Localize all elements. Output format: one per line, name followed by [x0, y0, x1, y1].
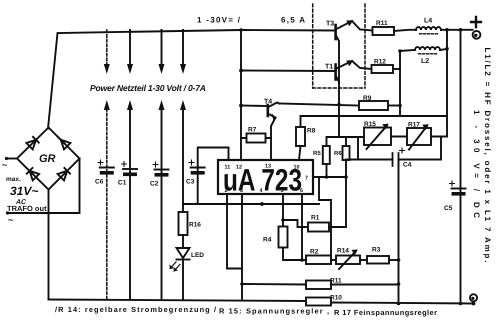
wire: L2 left lead [400, 50, 414, 51]
diode D-BR [58, 168, 70, 180]
terminal: + output [471, 17, 481, 27]
svg-text:R 15: Spannungsregler ,: R 15: Spannungsregler , [219, 307, 329, 316]
potentiometer R14 [336, 256, 360, 265]
wire: rail to T1 base [241, 70, 335, 73]
svg-text:~: ~ [8, 215, 13, 225]
resistor R2 [306, 256, 331, 265]
wire: R11b right lead [331, 284, 399, 286]
resistor R3 [367, 256, 389, 264]
wire: IC right pin stub [313, 176, 346, 178]
wire: pin 6 down [301, 194, 303, 260]
wire: ground line under IC [183, 203, 319, 205]
svg-text:C4: C4 [403, 162, 412, 169]
transistor T3 [334, 25, 337, 39]
svg-text:13: 13 [265, 164, 271, 170]
svg-text:R16: R16 [189, 222, 201, 229]
svg-text:11: 11 [225, 165, 231, 171]
svg-text:R1: R1 [311, 215, 320, 222]
svg-text:/R 14: regelbare Strombegrenzu: /R 14: regelbare Strombegrenzung / [55, 305, 216, 314]
resistor R8 [300, 116, 302, 127]
svg-text:7: 7 [305, 176, 308, 182]
svg-text:R6: R6 [334, 150, 342, 157]
wire: V+ vertical to IC pin 12 [240, 30, 242, 160]
diode D-BL [27, 168, 39, 180]
transistor T1 [334, 65, 337, 80]
wire: R16 feed with arrows [182, 30, 184, 204]
wire: R8 top line [301, 115, 448, 117]
diode D-TR [58, 137, 71, 150]
svg-text:R7: R7 [248, 127, 257, 134]
wire: L2 right lead [440, 49, 447, 50]
terminal: AC upper [5, 157, 8, 160]
resistor R16 [179, 212, 188, 235]
svg-text:LED: LED [191, 252, 204, 259]
wire: R12 to vertical node [393, 68, 400, 70]
svg-text:max.: max. [6, 176, 21, 183]
resistor R4 [279, 227, 288, 248]
svg-text:uA 723: uA 723 [223, 163, 302, 198]
wire: R2 to R14 [331, 259, 336, 261]
wire: C4 branch left drop [357, 137, 359, 160]
wire: output plus rail down (to C5, minus end) [460, 30, 462, 304]
capacitor C4 [346, 159, 393, 161]
wire: C2 feed with arrows [161, 30, 163, 300]
resistor R11 (sense) [306, 281, 331, 290]
svg-text:R3: R3 [372, 247, 381, 254]
wire: R14 to R3 [360, 259, 367, 261]
svg-text:T3: T3 [326, 21, 334, 28]
transistor T4 [266, 105, 269, 116]
wire: stub dogleg down [319, 177, 331, 260]
resistor R5 [326, 137, 328, 146]
capacitor C3 [191, 167, 205, 169]
wire: C4 node down to bus [398, 160, 400, 304]
wire: bridge minus down [48, 190, 50, 300]
diode D-TL [26, 137, 38, 150]
svg-text:C3: C3 [186, 179, 195, 186]
wire: pin 2 down [227, 194, 242, 269]
svg-text:R5: R5 [313, 150, 321, 157]
wire: R16 to LED [182, 235, 184, 248]
terminal: AC lower [6, 211, 9, 214]
svg-text:R12: R12 [374, 59, 386, 66]
svg-text:R 17 Feinspannungsregler: R 17 Feinspannungsregler [334, 308, 437, 317]
wire: pin 3 down to bus [241, 194, 243, 301]
wire: dashed C6 feed with arrows [106, 30, 108, 300]
svg-text:R8: R8 [307, 128, 316, 135]
wire: R12/R9 vertical [399, 51, 401, 116]
LED [177, 248, 190, 258]
svg-text:R17: R17 [408, 122, 420, 129]
svg-text:1 - 30 V= / DC: 1 - 30 V= / DC [472, 110, 481, 218]
node: T4 base junction [239, 104, 243, 108]
svg-text:GR: GR [39, 153, 56, 165]
resistor R7 [241, 137, 271, 139]
wire: top positive rail [48, 30, 335, 129]
resistor R11 (emitter T3) [373, 27, 395, 35]
resistor R6 [345, 137, 347, 146]
svg-text:~: ~ [2, 160, 7, 170]
bridge rectifier GR [17, 128, 80, 190]
terminal: minus output [470, 294, 477, 301]
svg-text:R4: R4 [263, 237, 272, 244]
wire: L1 to + terminal [441, 29, 473, 31]
svg-text:R2: R2 [310, 249, 319, 256]
wire: T4 collector to R9 [279, 104, 359, 106]
capacitor C6 [100, 167, 114, 169]
dashed box around T3/T1 [313, 4, 365, 88]
svg-text:T4: T4 [264, 99, 272, 106]
svg-text:12: 12 [236, 165, 242, 171]
wire: R3 right lead [389, 259, 399, 261]
svg-text:C2: C2 [150, 181, 159, 188]
svg-text:L2: L2 [421, 58, 429, 65]
resistor R10 [306, 298, 331, 306]
svg-text:C1: C1 [118, 180, 127, 187]
wire: R11b row [242, 283, 306, 286]
svg-text:6,5 A: 6,5 A [281, 16, 305, 25]
svg-text:R15: R15 [364, 121, 376, 128]
svg-text:1 -30V= /: 1 -30V= / [197, 16, 241, 25]
svg-text:T1: T1 [325, 64, 333, 71]
wire: bottom bus left [49, 300, 307, 302]
svg-text:Power Netzteil 1-30 Volt / 0-7: Power Netzteil 1-30 Volt / 0-7A [90, 83, 206, 93]
capacitor C5 [452, 188, 466, 190]
wire: R15 to R17 [391, 136, 407, 138]
svg-text:TRAFO out: TRAFO out [7, 204, 47, 213]
resistor R12 (emitter T1) [372, 65, 394, 73]
wire: T4 base [241, 105, 267, 108]
svg-text:R10: R10 [330, 295, 342, 302]
wire: AC input lower [8, 159, 80, 214]
wire: pin 11 to C3 [198, 148, 229, 205]
node: T1 base rail junction [239, 69, 243, 73]
potentiometer R17 [407, 128, 431, 145]
svg-text:31V~: 31V~ [10, 184, 38, 198]
wire: to R2 [302, 259, 306, 261]
wire: L-junction vertical to R17 [431, 30, 447, 137]
wire: AC input upper [7, 158, 17, 160]
wire: LED to bus [182, 260, 184, 300]
capacitor C2 [155, 169, 169, 171]
wire: R16 top lead [182, 204, 184, 212]
node A: rail/V+ drop junction [239, 28, 242, 31]
svg-text:C6: C6 [95, 179, 104, 186]
wire: pin 5 to R1/R4 [282, 194, 284, 227]
wire: R11 to L1 [394, 30, 416, 31]
resistor R1 [308, 223, 329, 232]
svg-text:L4: L4 [424, 18, 432, 25]
svg-text:10: 10 [294, 165, 300, 171]
svg-text:R11: R11 [376, 20, 388, 27]
svg-text:C5: C5 [444, 205, 453, 212]
capacitor C1 [123, 168, 137, 170]
wire: C1 feed with arrows [129, 30, 131, 300]
potentiometer R15 [364, 128, 391, 146]
svg-text:L1/L2 = HF Drossel, oder 1 x L: L1/L2 = HF Drossel, oder 1 x L1 7 Amp. [483, 48, 492, 263]
svg-text:4: 4 [260, 188, 263, 194]
inductor L2 [415, 47, 440, 50]
wire: R6 bottom vertical to R1 [345, 160, 347, 227]
resistor R9 [359, 101, 388, 110]
label max. 31V~ AC TRAFO out [6, 176, 47, 213]
wire: C4 right to R17 lead [399, 137, 442, 160]
wire: R1 left lead [283, 220, 308, 227]
wire: collector line to divider [327, 136, 365, 138]
IC uA723 [218, 160, 313, 194]
wire: bottom bus right [331, 303, 474, 304]
wire: R8 to pin 10 [299, 146, 301, 160]
svg-text:R11: R11 [330, 278, 342, 285]
svg-text:R9: R9 [363, 95, 372, 102]
wire: R1 right lead up [329, 226, 346, 228]
svg-text:R14: R14 [337, 248, 349, 255]
wire: R9 right lead [388, 105, 400, 107]
wire: R4 bottom to pin6 node [283, 248, 302, 261]
